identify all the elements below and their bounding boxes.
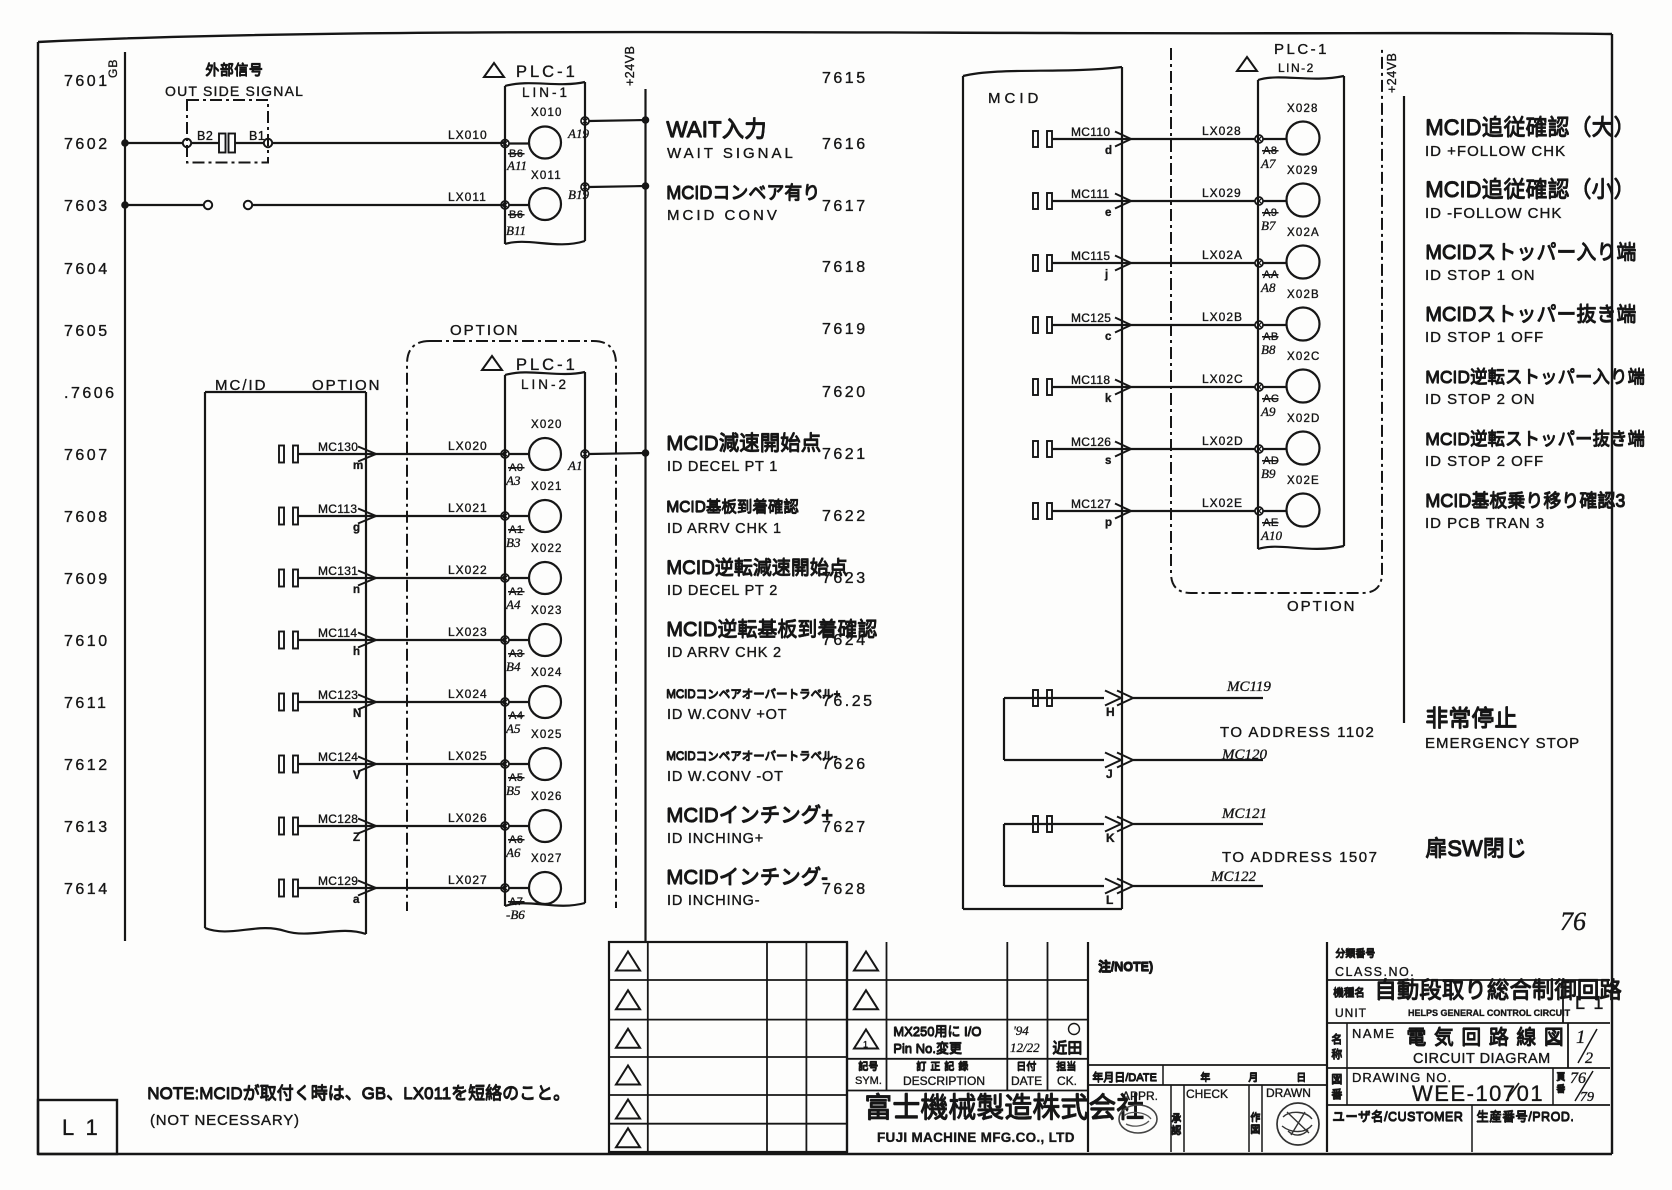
svg-text:MC126: MC126 xyxy=(1071,435,1111,449)
svg-text:7601: 7601 xyxy=(64,73,110,90)
svg-text:2: 2 xyxy=(1585,1050,1593,1067)
svg-text:MCID減速開始点: MCID減速開始点 xyxy=(666,432,821,455)
svg-text:X029: X029 xyxy=(1287,165,1319,177)
svg-text:LX02E: LX02E xyxy=(1202,496,1243,510)
svg-text:ID DECEL PT 2: ID DECEL PT 2 xyxy=(667,583,778,599)
svg-text:APPR.: APPR. xyxy=(1122,1089,1158,1103)
svg-text:LX028: LX028 xyxy=(1202,124,1242,138)
svg-text:LIN-2: LIN-2 xyxy=(1278,61,1315,75)
svg-text:機種名: 機種名 xyxy=(1333,986,1365,999)
svg-text:ID STOP 2 ON: ID STOP 2 ON xyxy=(1425,391,1536,408)
svg-text:B11: B11 xyxy=(506,223,526,238)
svg-text:(NOT NECESSARY): (NOT NECESSARY) xyxy=(150,1112,300,1129)
svg-text:J: J xyxy=(1106,767,1113,781)
svg-text:頁: 頁 xyxy=(1556,1072,1565,1082)
svg-text:MC129: MC129 xyxy=(318,874,358,888)
svg-text:X020: X020 xyxy=(531,419,563,431)
svg-text:ID STOP 1 OFF: ID STOP 1 OFF xyxy=(1425,329,1544,346)
svg-text:MCIDコンベアオーバートラベル+: MCIDコンベアオーバートラベル+ xyxy=(666,688,840,701)
svg-text:ID ARRV CHK 1: ID ARRV CHK 1 xyxy=(667,521,782,537)
svg-text:7616: 7616 xyxy=(822,136,868,153)
svg-text:富士機械製造株式会社: 富士機械製造株式会社 xyxy=(864,1092,1144,1123)
svg-text:A9: A9 xyxy=(1260,404,1276,419)
svg-text:LX023: LX023 xyxy=(448,625,488,639)
svg-text:認: 認 xyxy=(1171,1124,1181,1137)
svg-text:7628: 7628 xyxy=(822,881,868,898)
svg-text:CIRCUIT DIAGRAM: CIRCUIT DIAGRAM xyxy=(1413,1051,1551,1067)
svg-text:j: j xyxy=(1104,269,1108,281)
svg-text:WEE-10701: WEE-10701 xyxy=(1412,1081,1544,1106)
svg-text:年月日/DATE: 年月日/DATE xyxy=(1092,1070,1157,1084)
svg-text:称: 称 xyxy=(1331,1047,1342,1061)
svg-text:LX02B: LX02B xyxy=(1202,310,1243,324)
svg-text:MCIDインチング+: MCIDインチング+ xyxy=(666,804,833,827)
svg-text:MC122: MC122 xyxy=(1210,869,1257,885)
svg-text:7604: 7604 xyxy=(64,261,110,278)
svg-text:7620: 7620 xyxy=(822,384,868,401)
svg-text:LX022: LX022 xyxy=(448,563,488,577)
svg-text:ID PCB TRAN 3: ID PCB TRAN 3 xyxy=(1425,515,1545,532)
svg-text:K: K xyxy=(1106,831,1115,845)
svg-text:LX029: LX029 xyxy=(1202,186,1242,200)
svg-text:A19: A19 xyxy=(567,126,589,141)
svg-text:L 1: L 1 xyxy=(62,1115,101,1140)
svg-text:生産番号/PROD.: 生産番号/PROD. xyxy=(1476,1109,1574,1124)
svg-text:ID ARRV CHK 2: ID ARRV CHK 2 xyxy=(667,645,782,661)
svg-text:DATE: DATE xyxy=(1011,1074,1042,1088)
svg-text:DESCRIPTION: DESCRIPTION xyxy=(903,1074,985,1088)
svg-text:A3: A3 xyxy=(505,473,521,488)
svg-text:ユーザ名/CUSTOMER: ユーザ名/CUSTOMER xyxy=(1332,1109,1463,1124)
svg-text:LX021: LX021 xyxy=(448,501,488,515)
svg-text:7608: 7608 xyxy=(64,509,110,526)
svg-text:h: h xyxy=(353,646,360,658)
svg-text:日付: 日付 xyxy=(1016,1060,1036,1073)
svg-text:ID STOP 2 OFF: ID STOP 2 OFF xyxy=(1425,453,1544,470)
svg-text:A6: A6 xyxy=(505,845,521,860)
svg-text:X02B: X02B xyxy=(1287,289,1320,301)
svg-text:電気回路線図: 電気回路線図 xyxy=(1406,1026,1571,1049)
svg-text:日: 日 xyxy=(1296,1073,1306,1084)
svg-text:a: a xyxy=(353,894,360,906)
svg-text:X010: X010 xyxy=(531,107,563,119)
svg-text:MCID逆転基板到着確認: MCID逆転基板到着確認 xyxy=(666,618,877,641)
svg-text:'94: '94 xyxy=(1013,1023,1029,1038)
svg-text:A7: A7 xyxy=(1260,156,1276,171)
svg-text:LX026: LX026 xyxy=(448,811,488,825)
svg-text:MCID CONV: MCID CONV xyxy=(667,207,780,224)
svg-text:MCID追従確認（小）: MCID追従確認（小） xyxy=(1425,177,1635,202)
svg-text:MC124: MC124 xyxy=(318,750,358,764)
svg-text:g: g xyxy=(353,522,360,534)
svg-text:MC120: MC120 xyxy=(1221,747,1268,763)
svg-text:79: 79 xyxy=(1580,1090,1594,1105)
svg-text:PLC-1: PLC-1 xyxy=(516,63,578,81)
svg-text:MC127: MC127 xyxy=(1071,497,1111,511)
svg-text:WAIT SIGNAL: WAIT SIGNAL xyxy=(667,145,796,162)
svg-text:Z: Z xyxy=(353,832,360,844)
svg-text:OPTION: OPTION xyxy=(450,322,520,339)
svg-text:A4: A4 xyxy=(505,597,521,612)
svg-text:A11: A11 xyxy=(506,158,527,173)
svg-text:番: 番 xyxy=(1556,1083,1565,1094)
svg-text:MC111: MC111 xyxy=(1071,187,1109,201)
svg-text:SYM.: SYM. xyxy=(855,1075,882,1087)
svg-text:UNIT: UNIT xyxy=(1335,1006,1367,1020)
svg-text:MC110: MC110 xyxy=(1071,125,1110,139)
svg-text:OPTION: OPTION xyxy=(1287,598,1357,615)
svg-text:MC113: MC113 xyxy=(318,502,357,516)
svg-text:MC114: MC114 xyxy=(318,626,357,640)
svg-text:7602: 7602 xyxy=(64,136,110,153)
svg-text:76: 76 xyxy=(1560,907,1586,936)
svg-text:n: n xyxy=(353,584,360,596)
svg-text:LX010: LX010 xyxy=(448,128,488,142)
svg-text:B9: B9 xyxy=(1261,466,1276,481)
svg-text:WAIT入力: WAIT入力 xyxy=(666,117,766,142)
svg-text:MC123: MC123 xyxy=(318,688,358,702)
svg-text:ID STOP 1 ON: ID STOP 1 ON xyxy=(1425,267,1536,284)
svg-text:A8: A8 xyxy=(1260,280,1276,295)
svg-text:7607: 7607 xyxy=(64,447,110,464)
svg-text:番: 番 xyxy=(1331,1088,1342,1101)
svg-text:k: k xyxy=(1105,393,1112,405)
svg-text:7605: 7605 xyxy=(64,323,110,340)
svg-text:MC131: MC131 xyxy=(318,564,358,578)
svg-text:B2: B2 xyxy=(197,129,213,143)
svg-text:MCIDコンベアオーバートラベル-: MCIDコンベアオーバートラベル- xyxy=(666,750,837,763)
svg-text:扉SW閉じ: 扉SW閉じ xyxy=(1425,836,1526,861)
svg-text:年: 年 xyxy=(1200,1071,1210,1084)
svg-text:MCIDコンベア有り: MCIDコンベア有り xyxy=(666,183,820,203)
svg-text:FUJI MACHINE MFG.CO., LTD: FUJI MACHINE MFG.CO., LTD xyxy=(877,1130,1075,1145)
svg-text:X027: X027 xyxy=(531,853,563,865)
svg-text:X02D: X02D xyxy=(1287,413,1321,425)
svg-text:非常停止: 非常停止 xyxy=(1425,705,1517,731)
svg-text:MCID: MCID xyxy=(988,90,1042,107)
svg-text:月: 月 xyxy=(1248,1072,1258,1084)
svg-text:ID INCHING+: ID INCHING+ xyxy=(667,831,764,847)
svg-text:ID W.CONV -OT: ID W.CONV -OT xyxy=(667,769,784,785)
svg-text:12/22: 12/22 xyxy=(1010,1040,1040,1055)
svg-text:A1: A1 xyxy=(567,458,582,473)
svg-text:LIN-1: LIN-1 xyxy=(522,85,570,100)
svg-text:ID W.CONV +OT: ID W.CONV +OT xyxy=(667,707,787,723)
svg-text:担当: 担当 xyxy=(1056,1060,1076,1073)
svg-text:LX011: LX011 xyxy=(448,190,487,204)
svg-text:MCID逆転ストッパー入り端: MCID逆転ストッパー入り端 xyxy=(1425,367,1645,387)
svg-text:MCID基板乗り移り確認3: MCID基板乗り移り確認3 xyxy=(1425,491,1625,511)
svg-text:X024: X024 xyxy=(531,667,563,679)
svg-text:7610: 7610 xyxy=(64,633,110,650)
svg-text:図: 図 xyxy=(1331,1073,1342,1086)
svg-text:MC115: MC115 xyxy=(1071,249,1110,263)
svg-text:7618: 7618 xyxy=(822,259,868,276)
svg-text:L 1: L 1 xyxy=(1575,993,1605,1013)
svg-text:X026: X026 xyxy=(531,791,563,803)
svg-text:7617: 7617 xyxy=(822,198,868,215)
svg-text:EMERGENCY STOP: EMERGENCY STOP xyxy=(1425,735,1580,752)
svg-text:注/NOTE): 注/NOTE) xyxy=(1098,959,1153,974)
svg-text:X021: X021 xyxy=(531,481,563,493)
svg-text:7603: 7603 xyxy=(64,198,110,215)
svg-text:TO ADDRESS 1507: TO ADDRESS 1507 xyxy=(1222,849,1378,866)
svg-text:MC128: MC128 xyxy=(318,812,358,826)
svg-text:A5: A5 xyxy=(505,721,521,736)
svg-text:MCID逆転減速開始点: MCID逆転減速開始点 xyxy=(666,557,848,579)
svg-text:LX02A: LX02A xyxy=(1202,248,1243,262)
svg-text:MCIDインチング-: MCIDインチング- xyxy=(666,866,828,889)
svg-text:B8: B8 xyxy=(1261,342,1276,357)
svg-text:HELPS GENERAL CONTROL CIRCUIT: HELPS GENERAL CONTROL CIRCUIT xyxy=(1408,1008,1571,1018)
svg-text:X02A: X02A xyxy=(1287,227,1320,239)
svg-text:TO ADDRESS 1102: TO ADDRESS 1102 xyxy=(1220,724,1375,741)
svg-text:近田: 近田 xyxy=(1052,1040,1082,1057)
svg-text:c: c xyxy=(1105,331,1112,343)
svg-text:X025: X025 xyxy=(531,729,563,741)
svg-text:MCID逆転ストッパー抜き端: MCID逆転ストッパー抜き端 xyxy=(1425,429,1645,449)
svg-text:LIN-2: LIN-2 xyxy=(521,377,569,392)
svg-text:H: H xyxy=(1106,705,1115,719)
svg-text:LX027: LX027 xyxy=(448,873,488,887)
svg-text:p: p xyxy=(1105,517,1112,529)
svg-text:ID INCHING-: ID INCHING- xyxy=(667,893,760,909)
svg-text:分類番号: 分類番号 xyxy=(1335,948,1375,960)
svg-text:NAME: NAME xyxy=(1352,1026,1396,1041)
svg-text:7615: 7615 xyxy=(822,70,868,87)
svg-text:X022: X022 xyxy=(531,543,563,555)
svg-text:MC119: MC119 xyxy=(1226,679,1271,695)
svg-text:LX020: LX020 xyxy=(448,439,488,453)
svg-text:NOTE:MCIDが取付く時は、GB、LX011を短絡のこと: NOTE:MCIDが取付く時は、GB、LX011を短絡のこと。 xyxy=(147,1084,570,1103)
svg-text:1: 1 xyxy=(1576,1027,1586,1048)
svg-text:N: N xyxy=(353,708,361,720)
svg-text:PLC-1: PLC-1 xyxy=(1274,41,1329,58)
svg-text:PLC-1: PLC-1 xyxy=(516,356,578,374)
svg-text:MC130: MC130 xyxy=(318,440,358,454)
svg-text:7609: 7609 xyxy=(64,571,110,588)
svg-text:訂正記録: 訂正記録 xyxy=(916,1060,972,1073)
svg-text:LX024: LX024 xyxy=(448,687,488,701)
svg-text:A10: A10 xyxy=(1260,528,1282,543)
svg-text:LX02D: LX02D xyxy=(1202,434,1244,448)
svg-text:MX250用に I/O: MX250用に I/O xyxy=(893,1024,981,1039)
svg-text:DRAWN: DRAWN xyxy=(1266,1086,1311,1100)
svg-text:LX025: LX025 xyxy=(448,749,488,763)
svg-text:X028: X028 xyxy=(1287,103,1319,115)
svg-text:7612: 7612 xyxy=(64,757,110,774)
svg-text:X023: X023 xyxy=(531,605,563,617)
svg-text:ID DECEL PT 1: ID DECEL PT 1 xyxy=(667,459,778,475)
svg-text:B5: B5 xyxy=(506,783,521,798)
svg-text:7619: 7619 xyxy=(822,321,868,338)
svg-text:記号: 記号 xyxy=(858,1060,878,1073)
svg-text:76: 76 xyxy=(1570,1070,1586,1087)
svg-text:X011: X011 xyxy=(531,170,562,182)
svg-text:B7: B7 xyxy=(1261,218,1276,233)
svg-text:LX02C: LX02C xyxy=(1202,372,1244,386)
svg-text:MC118: MC118 xyxy=(1071,373,1110,387)
svg-text:-B6: -B6 xyxy=(506,907,525,922)
svg-text:B3: B3 xyxy=(506,535,521,550)
svg-text:m: m xyxy=(353,460,363,472)
svg-text:s: s xyxy=(1105,455,1111,467)
svg-text:OUT SIDE SIGNAL: OUT SIDE SIGNAL xyxy=(165,83,304,99)
svg-text:7611: 7611 xyxy=(64,695,108,712)
svg-text:作: 作 xyxy=(1250,1112,1260,1124)
svg-text:L: L xyxy=(1106,893,1113,907)
svg-text:e: e xyxy=(1105,207,1111,219)
svg-text:1: 1 xyxy=(863,1040,868,1050)
svg-text:名: 名 xyxy=(1331,1032,1342,1046)
svg-text:承: 承 xyxy=(1171,1113,1181,1125)
svg-text:+24VB: +24VB xyxy=(1385,53,1399,93)
svg-text:B1: B1 xyxy=(249,129,265,143)
svg-text:MC125: MC125 xyxy=(1071,311,1111,325)
svg-text:X02E: X02E xyxy=(1287,475,1320,487)
svg-text:ID -FOLLOW CHK: ID -FOLLOW CHK xyxy=(1425,205,1562,222)
svg-text:.7606: .7606 xyxy=(64,385,117,402)
svg-text:7614: 7614 xyxy=(64,881,110,898)
svg-text:d: d xyxy=(1105,145,1112,157)
svg-text:外部信号: 外部信号 xyxy=(205,62,263,78)
svg-text:B19: B19 xyxy=(568,187,589,202)
svg-text:MCIDストッパー入り端: MCIDストッパー入り端 xyxy=(1425,241,1636,264)
svg-text:MC121: MC121 xyxy=(1221,806,1267,822)
svg-text:7621: 7621 xyxy=(822,446,868,463)
svg-text:CHECK: CHECK xyxy=(1186,1087,1228,1101)
svg-text:MCID追従確認（大）: MCID追従確認（大） xyxy=(1425,115,1635,140)
svg-text:Pin No.変更: Pin No.変更 xyxy=(893,1041,962,1056)
svg-text:V: V xyxy=(353,770,361,782)
svg-text:MCID基板到着確認: MCID基板到着確認 xyxy=(666,498,799,516)
svg-text:MCIDストッパー抜き端: MCIDストッパー抜き端 xyxy=(1425,303,1636,326)
svg-text:X02C: X02C xyxy=(1287,351,1321,363)
svg-text:7622: 7622 xyxy=(822,508,868,525)
svg-text:+24VB: +24VB xyxy=(623,46,637,86)
svg-text:図: 図 xyxy=(1250,1124,1260,1136)
svg-text:GB: GB xyxy=(106,59,120,78)
svg-text:7613: 7613 xyxy=(64,819,110,836)
svg-text:CK.: CK. xyxy=(1057,1074,1077,1088)
svg-text:ID +FOLLOW CHK: ID +FOLLOW CHK xyxy=(1425,143,1566,160)
svg-text:B4: B4 xyxy=(506,659,521,674)
